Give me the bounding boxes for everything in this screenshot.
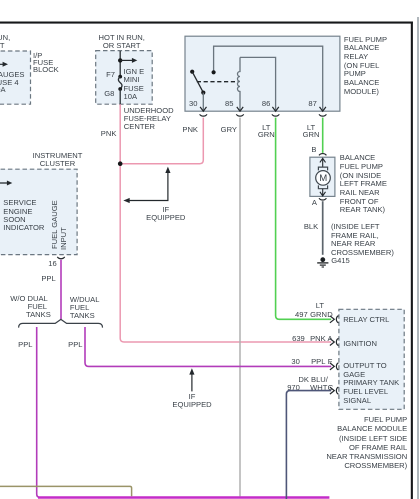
label PNK (pin 30 wire) — [168, 126, 198, 134]
instrument cluster box — [0, 169, 77, 254]
wire feed inside fuse box — [119, 51, 121, 77]
node switch common — [201, 91, 205, 95]
pin 85 arrow — [237, 107, 243, 111]
motor commutator cap bottom — [318, 185, 327, 188]
label DK BLU/ — [288, 376, 328, 384]
label W/DUAL FUEL TANKS — [70, 296, 100, 321]
pump pin B connector cup — [319, 154, 326, 156]
label IF EQUIPPED 1 — [146, 206, 185, 223]
label pin B — [297, 146, 317, 154]
label 639 PNK A — [292, 335, 305, 343]
pump internal arrow down (pin A) — [320, 189, 326, 196]
pump pin A connector cup — [319, 198, 326, 200]
label G415 — [331, 257, 350, 265]
panel divider line right edge — [417, 17, 418, 499]
pin 30 connector cup — [200, 114, 207, 116]
label INSIDE LEFT FRAME RAIL caption — [331, 223, 394, 258]
module box (fuel pump balance module) — [339, 309, 404, 409]
label IGNITION — [343, 340, 377, 348]
label GAUGES FUSE 4 10A (cut off) — [0, 71, 25, 93]
label pin 16 — [37, 260, 57, 268]
relay box (fuel pump balance relay) — [185, 36, 340, 111]
pin 86 arrow — [272, 107, 278, 111]
label pin 85 — [204, 100, 234, 108]
if-equipped arrow 1 — [165, 167, 170, 173]
pin 87 arrow — [320, 107, 326, 111]
ground G415 — [320, 257, 325, 262]
module pin D arrow and cup — [330, 316, 334, 323]
label pin 86 — [240, 100, 270, 108]
wire PPL w/o dual tanks branch — [37, 327, 41, 498]
wire PPL w/dual tanks branch to module pin F — [85, 327, 331, 366]
label UNDERHOOD FUSE-RELAY CENTER — [124, 107, 174, 132]
wire pin 30 stub — [202, 93, 204, 112]
label BLK — [288, 223, 318, 231]
options split brace — [19, 319, 103, 327]
wire coil top to pin 86 — [240, 57, 276, 111]
label IF EQUIPPED 2 — [172, 393, 211, 410]
module pin A arrow and cup — [330, 339, 334, 346]
label FUEL PUMP BALANCE RELAY caption — [344, 36, 387, 97]
wire PNK from fuse down to module pin A — [120, 104, 331, 342]
label F7 — [85, 71, 115, 79]
node NO contact — [212, 70, 216, 74]
wire to other circuits — [120, 59, 132, 61]
label W/O DUAL FUEL TANKS — [10, 295, 48, 303]
label PRIMARY TANK FUEL LEVEL SIGNAL — [343, 379, 399, 405]
if-equipped arrow 2 — [189, 368, 194, 374]
label FUEL PUMP BALANCE MODULE caption — [297, 415, 407, 471]
frame right border — [411, 22, 413, 499]
frame top border — [0, 22, 413, 24]
label PNK (fuse wire) — [86, 130, 116, 138]
arrow to other circuits (fuse box) — [132, 58, 137, 63]
label PPL (right branch) — [53, 341, 83, 349]
label pin A — [297, 199, 317, 207]
relay coil — [238, 57, 241, 111]
label 970 WHT C — [287, 384, 300, 392]
label I/P FUSE BLOCK — [33, 52, 59, 74]
wire LT GRN relay pin 86 to module pin D — [276, 118, 332, 320]
label OUTPUT TO GAGE — [343, 362, 386, 380]
label IGN E MINI FUSE 10A — [124, 68, 145, 101]
node junction at fuse feed — [118, 58, 122, 62]
label RELAY CTRL — [343, 316, 389, 324]
label INSTRUMENT CLUSTER — [33, 152, 83, 169]
pin 87 connector cup — [319, 114, 326, 116]
motor M1 circle — [316, 171, 331, 186]
wire LT GRN relay pin 87 to pump pin B — [322, 118, 324, 153]
label pin 87 — [287, 100, 317, 108]
wire BLK pump to ground — [322, 201, 324, 255]
label LT GRN (pin 87 wire) — [303, 124, 320, 139]
pump internal arrow up (pin B) — [320, 158, 326, 167]
label 497 GRN D — [295, 311, 308, 319]
wire olive bottom left — [0, 486, 132, 496]
label BALANCE FUEL PUMP caption — [340, 154, 387, 215]
wire PNK branch to relay pin 30 — [120, 118, 203, 164]
label FUEL GAUGE (rotated) — [51, 200, 59, 249]
pin 30 arrow — [200, 107, 206, 111]
cluster pin 16 connector cup — [57, 257, 64, 259]
label OR START (left, cut off) — [0, 42, 5, 50]
pin 85 connector cup — [236, 114, 243, 116]
fuse F7/G8 IGN E MINI FUSE 10A — [118, 75, 122, 79]
label GRY (pin 85 wire) — [207, 126, 237, 134]
switch blade — [192, 72, 203, 93]
cluster internal wire arrow — [0, 182, 8, 184]
wire relay top bus to 87 — [214, 46, 323, 111]
label G8 — [84, 90, 114, 98]
label M (motor) — [319, 174, 327, 184]
label pin 30 — [168, 100, 198, 108]
wire (I/P fuse block feed) — [0, 63, 3, 65]
balance fuel pump box — [310, 157, 335, 196]
motor commutator cap top — [318, 167, 327, 170]
relay actuation dashed link — [197, 81, 239, 83]
label SERVICE ENGINE SOON INDICATOR — [3, 199, 44, 232]
pin 86 connector cup — [272, 114, 279, 116]
wire DK BLU/WHT from below to module pin C — [286, 391, 331, 499]
label INPUT (rotated) — [60, 227, 68, 250]
label LT GRN (pin 86 wire) — [258, 124, 275, 139]
underhood fuse box (HOT IN RUN, OR START) — [96, 51, 153, 105]
I/P fuse block box — [0, 51, 31, 104]
wire below fuse — [119, 89, 121, 104]
label PPL (left branch) — [3, 341, 33, 349]
module pin C arrow and cup — [330, 387, 334, 394]
wire PPL bottom run — [38, 496, 329, 499]
label LT (497 GRN) — [304, 302, 324, 310]
label PPL (cluster wire) — [26, 275, 56, 283]
label HOT IN RUN (left, cut off) — [0, 34, 10, 42]
wire PPL cluster pin 16 down — [60, 260, 62, 319]
node PNK junction — [118, 161, 123, 166]
module pin F arrow and cup — [330, 363, 334, 370]
label HOT IN RUN, OR START — [99, 34, 145, 49]
arrow to other circuits (I/P box) — [3, 62, 8, 67]
label 30 PPL F — [291, 358, 299, 366]
wire GRY from relay pin 85 — [239, 118, 241, 497]
node switch pivot — [190, 70, 194, 74]
